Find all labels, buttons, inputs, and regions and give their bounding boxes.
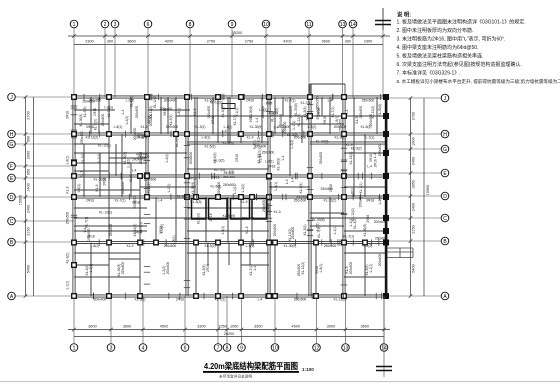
svg-text:4. 图中梁支座未注明筋均为6Фd@50.: 4. 图中梁支座未注明筋均为6Фd@50. — [397, 44, 479, 51]
svg-text:KL-9: KL-9 — [141, 125, 148, 129]
svg-text:L-1(1): L-1(1) — [292, 121, 296, 130]
svg-text:2: 2 — [104, 22, 107, 28]
svg-text:F: F — [10, 164, 13, 170]
svg-text:KL-3(2): KL-3(2) — [335, 136, 346, 140]
svg-text:2000: 2000 — [27, 151, 31, 159]
svg-text:KL-3(2): KL-3(2) — [81, 153, 85, 164]
svg-text:8: 8 — [226, 345, 229, 351]
svg-text:H: H — [443, 132, 447, 138]
svg-text:4500: 4500 — [292, 325, 300, 329]
svg-text:15900: 15900 — [426, 185, 430, 196]
svg-text:KL-30(9): KL-30(9) — [284, 244, 297, 248]
svg-text:L-4: L-4 — [222, 129, 227, 133]
svg-text:3600: 3600 — [322, 40, 330, 44]
svg-text:250x600: 250x600 — [262, 199, 266, 212]
svg-text:C: C — [443, 216, 447, 222]
rebar stub marks — [71, 94, 382, 299]
svg-text:200x500: 200x500 — [207, 106, 211, 119]
svg-text:200x500: 200x500 — [121, 182, 125, 195]
svg-text:KL-9: KL-9 — [241, 200, 248, 204]
svg-text:L-1(1): L-1(1) — [66, 281, 70, 290]
svg-text:2Ф16: 2Ф16 — [249, 114, 253, 122]
svg-text:KL-5(3): KL-5(3) — [169, 115, 173, 126]
svg-text:250x500: 250x500 — [338, 119, 342, 132]
svg-text:200x500: 200x500 — [273, 224, 277, 237]
svg-text:13: 13 — [343, 345, 349, 351]
svg-text:2Ф16: 2Ф16 — [212, 175, 220, 179]
svg-text:2Ф16: 2Ф16 — [211, 116, 215, 124]
svg-text:L-4: L-4 — [258, 298, 263, 302]
svg-text:KL-3(2): KL-3(2) — [303, 225, 307, 236]
svg-text:D: D — [10, 195, 14, 201]
svg-text:2700: 2700 — [27, 111, 31, 119]
svg-text:L-4: L-4 — [328, 99, 333, 103]
svg-text:2300: 2300 — [85, 40, 93, 44]
notes block 说明 — [397, 11, 560, 85]
svg-text:L-4: L-4 — [121, 109, 125, 114]
svg-text:250x500: 250x500 — [319, 152, 323, 165]
svg-text:4.20m梁底结构梁配筋平面图: 4.20m梁底结构梁配筋平面图 — [204, 361, 298, 371]
svg-text:L-2(2): L-2(2) — [259, 108, 268, 112]
svg-text:KL-9: KL-9 — [95, 184, 99, 191]
svg-text:1400: 1400 — [27, 183, 31, 191]
svg-text:200x500: 200x500 — [296, 196, 309, 200]
svg-text:KL-9: KL-9 — [193, 108, 197, 115]
svg-text:2. 图中未注明板厚均为双向分布筋.: 2. 图中未注明板厚均为双向分布筋. — [397, 27, 474, 34]
svg-text:7: 7 — [217, 345, 220, 351]
svg-text:D: D — [443, 194, 447, 200]
svg-text:KL-30(9): KL-30(9) — [378, 104, 382, 117]
svg-text:200x400: 200x400 — [374, 220, 387, 224]
svg-text:250x500: 250x500 — [223, 183, 236, 187]
svg-text:300: 300 — [345, 40, 351, 44]
svg-text:2750: 2750 — [245, 40, 253, 44]
svg-text:3600: 3600 — [123, 325, 131, 329]
svg-text:G: G — [10, 142, 14, 148]
svg-text:KL-3(2): KL-3(2) — [214, 159, 225, 163]
svg-text:8. 水工模板详见小梁楼布水平台走升, 提前得抗震等级为三级: 8. 水工模板详见小梁楼布水平台走升, 提前得抗震等级为三级;剪力墙抗震等级为二… — [397, 78, 560, 85]
paper edge artifact — [0, 381, 560, 383]
svg-text:KL-30(9): KL-30(9) — [312, 218, 325, 222]
svg-text:250x500: 250x500 — [109, 224, 113, 237]
svg-text:KL-30(9): KL-30(9) — [177, 195, 190, 199]
svg-text:L-4: L-4 — [345, 109, 349, 114]
svg-text:L-1(1): L-1(1) — [369, 264, 373, 273]
svg-text:15900: 15900 — [19, 195, 23, 206]
svg-text:2Ф16: 2Ф16 — [209, 213, 213, 221]
svg-text:200x400: 200x400 — [137, 155, 150, 159]
svg-text:1. 板及墙做法见平面图未注明构造详《03G101-1》的规: 1. 板及墙做法见平面图未注明构造详《03G101-1》的规定. — [397, 19, 526, 26]
svg-text:200x400: 200x400 — [289, 106, 293, 119]
svg-text:200x400: 200x400 — [164, 99, 177, 103]
beam labels — [66, 95, 388, 301]
svg-text:2Ф16: 2Ф16 — [102, 177, 106, 185]
svg-text:10: 10 — [263, 22, 269, 28]
svg-text:250x600: 250x600 — [144, 178, 157, 182]
svg-text:KL-12(2): KL-12(2) — [301, 262, 305, 275]
floor plan beams horizontal — [74, 84, 386, 297]
svg-text:L-1(1): L-1(1) — [167, 184, 171, 193]
svg-text:250x600: 250x600 — [101, 114, 105, 127]
svg-text:C: C — [10, 219, 14, 225]
svg-text:L-4: L-4 — [158, 199, 163, 203]
room label cluster — [223, 171, 235, 179]
svg-text:KL-5(3): KL-5(3) — [299, 183, 303, 194]
svg-text:200x400: 200x400 — [80, 131, 84, 144]
svg-text:KL-5(3): KL-5(3) — [83, 107, 87, 118]
svg-text:3600: 3600 — [127, 40, 135, 44]
svg-text:KL-7(1): KL-7(1) — [85, 217, 89, 228]
svg-text:KL-9: KL-9 — [274, 210, 281, 214]
svg-text:KL-12(2): KL-12(2) — [334, 298, 347, 302]
svg-text:L-8(1): L-8(1) — [274, 182, 278, 191]
svg-text:L-8(1): L-8(1) — [77, 184, 81, 193]
svg-text:4200: 4200 — [165, 40, 173, 44]
svg-text:13: 13 — [340, 22, 346, 28]
svg-text:KL-30(9): KL-30(9) — [294, 103, 298, 116]
svg-text:2Ф16: 2Ф16 — [374, 159, 378, 167]
svg-text:2Ф16: 2Ф16 — [206, 264, 210, 272]
left axis grid bubbles and dimensions — [8, 93, 74, 300]
svg-text:KL-7(1): KL-7(1) — [317, 227, 321, 238]
svg-text:1050: 1050 — [218, 325, 226, 329]
svg-text:3Ф18: 3Ф18 — [132, 201, 140, 205]
svg-text:KL-5(3): KL-5(3) — [210, 185, 221, 189]
svg-text:3300: 3300 — [197, 325, 205, 329]
roof protrusion box — [310, 84, 345, 97]
svg-text:L-2(2): L-2(2) — [269, 111, 278, 115]
svg-text:4500: 4500 — [160, 325, 168, 329]
svg-text:L-4: L-4 — [373, 153, 377, 158]
svg-text:说 明:: 说 明: — [397, 11, 411, 19]
svg-text:L-4: L-4 — [290, 177, 294, 182]
svg-text:6: 6 — [184, 345, 187, 351]
svg-text:KL-5(3): KL-5(3) — [135, 298, 146, 302]
svg-text:200x400: 200x400 — [137, 133, 150, 137]
svg-text:KL-12(2): KL-12(2) — [324, 199, 337, 203]
svg-text:KL-3(2): KL-3(2) — [221, 107, 225, 118]
svg-text:L-1(1): L-1(1) — [252, 140, 256, 149]
svg-text:9: 9 — [231, 22, 234, 28]
svg-text:1050: 1050 — [230, 325, 238, 329]
svg-text:6: 6 — [147, 22, 150, 28]
svg-text:KL-12(2): KL-12(2) — [98, 144, 111, 148]
svg-text:3600: 3600 — [88, 325, 96, 329]
svg-text:8: 8 — [189, 22, 192, 28]
svg-text:2400: 2400 — [412, 157, 416, 165]
break line top — [375, 8, 391, 30]
svg-text:KL-3(2): KL-3(2) — [195, 125, 206, 129]
svg-text:2750: 2750 — [207, 40, 215, 44]
svg-text:KL-12(2): KL-12(2) — [349, 152, 353, 165]
svg-text:L-2(2): L-2(2) — [160, 224, 164, 233]
svg-text:250x600: 250x600 — [121, 262, 125, 275]
svg-text:L-4: L-4 — [253, 265, 257, 270]
svg-text:KL-9: KL-9 — [259, 155, 263, 162]
svg-text:KL-3(2): KL-3(2) — [66, 253, 70, 264]
svg-text:2Ф16: 2Ф16 — [93, 108, 97, 116]
svg-text:250x500: 250x500 — [316, 96, 320, 109]
svg-text:L-4: L-4 — [285, 179, 289, 184]
svg-text:KL-7(1): KL-7(1) — [359, 183, 363, 194]
svg-text:200x400: 200x400 — [166, 262, 170, 275]
svg-text:2300: 2300 — [364, 40, 372, 44]
svg-text:KL-7(1): KL-7(1) — [115, 199, 126, 203]
svg-text:L-4: L-4 — [281, 155, 285, 160]
svg-text:3: 3 — [110, 345, 113, 351]
svg-text:L-1(1): L-1(1) — [235, 108, 239, 117]
svg-text:250x600: 250x600 — [291, 227, 295, 240]
svg-text:3300: 3300 — [254, 325, 262, 329]
svg-text:KL-3(2): KL-3(2) — [205, 244, 216, 248]
svg-text:2Ф16: 2Ф16 — [246, 99, 254, 103]
svg-text:250x600: 250x600 — [324, 244, 337, 248]
svg-text:3600: 3600 — [361, 325, 369, 329]
stair core boxes — [192, 199, 267, 220]
svg-text:250x500: 250x500 — [135, 106, 139, 119]
svg-text:2150: 2150 — [27, 227, 31, 235]
svg-text:6. 次梁支座注明方法弯起(参见图)按规范构造报监理确认.: 6. 次梁支座注明方法弯起(参见图)按规范构造报监理确认. — [397, 61, 522, 68]
svg-text:未尽事宜详见总说明: 未尽事宜详见总说明 — [219, 374, 252, 379]
svg-text:200x500: 200x500 — [87, 228, 91, 241]
svg-text:5400: 5400 — [27, 265, 31, 273]
svg-text:11: 11 — [306, 22, 311, 28]
svg-text:KL-3(2): KL-3(2) — [129, 96, 133, 107]
svg-text:KL-30(9): KL-30(9) — [191, 182, 195, 195]
svg-text:KL-12(2): KL-12(2) — [210, 101, 223, 105]
svg-text:35200: 35200 — [232, 31, 243, 35]
svg-text:250x600: 250x600 — [262, 151, 275, 155]
svg-text:KL-30(9): KL-30(9) — [276, 158, 280, 171]
svg-text:250x500: 250x500 — [82, 100, 95, 104]
svg-text:2Ф16: 2Ф16 — [235, 154, 239, 162]
right balcony slab — [387, 248, 413, 258]
svg-text:KL-9: KL-9 — [245, 226, 249, 233]
svg-text:2150: 2150 — [412, 225, 416, 233]
svg-text:3Ф18: 3Ф18 — [323, 116, 327, 124]
svg-text:250x500: 250x500 — [266, 203, 270, 216]
svg-text:14: 14 — [350, 22, 356, 28]
svg-text:KL-9: KL-9 — [247, 136, 254, 140]
svg-text:2Ф16: 2Ф16 — [86, 199, 94, 203]
svg-text:4: 4 — [142, 345, 145, 351]
svg-text:9: 9 — [240, 345, 243, 351]
bottom axis grid bubbles and dimensions — [68, 296, 390, 351]
svg-text:3Ф18: 3Ф18 — [267, 165, 275, 169]
svg-text:L-2(2): L-2(2) — [165, 154, 169, 163]
svg-text:L-8(1): L-8(1) — [66, 156, 70, 165]
svg-text:3Ф18: 3Ф18 — [366, 199, 374, 203]
svg-text:2400: 2400 — [27, 205, 31, 213]
svg-text:250x500: 250x500 — [359, 106, 363, 119]
svg-text:4200: 4200 — [283, 40, 291, 44]
svg-text:L-8(1): L-8(1) — [114, 125, 123, 129]
svg-text:1600: 1600 — [412, 137, 416, 145]
svg-text:L-8(1): L-8(1) — [221, 226, 225, 235]
columns — [72, 94, 389, 299]
small hatch box — [222, 104, 235, 109]
svg-text:L-1(1): L-1(1) — [256, 137, 260, 146]
svg-text:12: 12 — [314, 345, 320, 351]
svg-text:L-1(1): L-1(1) — [246, 244, 255, 248]
svg-text:KL-3(2): KL-3(2) — [287, 133, 298, 137]
svg-text:1850: 1850 — [412, 180, 416, 188]
svg-text:200x400: 200x400 — [94, 298, 107, 302]
svg-text:900: 900 — [27, 136, 31, 142]
svg-text:L-4: L-4 — [255, 117, 259, 122]
svg-text:KL-30(9): KL-30(9) — [316, 140, 329, 144]
svg-text:200x400: 200x400 — [378, 254, 382, 267]
svg-text:L-8(1): L-8(1) — [172, 236, 176, 245]
svg-text:L-4: L-4 — [132, 169, 137, 173]
svg-text:KL-3(2): KL-3(2) — [353, 218, 357, 229]
svg-text:L-8(1): L-8(1) — [104, 105, 113, 109]
svg-text:26200: 26200 — [224, 332, 235, 336]
svg-text:G: G — [443, 147, 447, 153]
svg-text:950: 950 — [27, 169, 31, 175]
svg-text:L-8(1): L-8(1) — [202, 136, 211, 140]
svg-text:H: H — [10, 132, 14, 138]
svg-text:10: 10 — [272, 345, 278, 351]
svg-text:L-8(1): L-8(1) — [91, 244, 100, 248]
svg-text:KL-9: KL-9 — [66, 186, 70, 193]
drawing title — [203, 361, 314, 379]
svg-text:L-8(1): L-8(1) — [319, 264, 323, 273]
svg-text:KL-9: KL-9 — [80, 170, 84, 177]
svg-text:3Ф18: 3Ф18 — [66, 111, 70, 119]
svg-text:KL-7(1): KL-7(1) — [285, 99, 296, 103]
svg-text:L-2(2): L-2(2) — [290, 140, 294, 149]
svg-text:L-1(1): L-1(1) — [333, 226, 337, 235]
svg-text:250x500: 250x500 — [321, 187, 334, 191]
svg-text:KL-5(3): KL-5(3) — [175, 136, 179, 147]
svg-text:KL-12(2): KL-12(2) — [99, 210, 112, 214]
svg-text:KL-5(3): KL-5(3) — [205, 145, 216, 149]
svg-text:KL-7(1): KL-7(1) — [301, 101, 312, 105]
svg-text:L-4: L-4 — [274, 126, 279, 130]
svg-text:3Ф18: 3Ф18 — [305, 112, 309, 120]
svg-text:L-2(2): L-2(2) — [308, 125, 317, 129]
svg-text:L-1(1): L-1(1) — [89, 264, 93, 273]
svg-text:5400: 5400 — [412, 264, 416, 272]
svg-text:L-2(2): L-2(2) — [364, 244, 373, 248]
svg-text:5. 板及墙做法见梁柱梁筋构造相关串连.: 5. 板及墙做法见梁柱梁筋构造相关串连. — [397, 52, 484, 59]
svg-text:1: 1 — [73, 345, 76, 351]
svg-text:L-1(1): L-1(1) — [97, 154, 101, 163]
svg-text:200x400: 200x400 — [189, 152, 193, 165]
svg-text:L-1(1): L-1(1) — [366, 136, 375, 140]
floor plan beams vertical — [73, 84, 388, 296]
svg-text:3000: 3000 — [327, 325, 335, 329]
svg-text:L-2(2): L-2(2) — [126, 159, 130, 168]
svg-text:250x600: 250x600 — [378, 144, 382, 157]
svg-text:250x500: 250x500 — [294, 298, 307, 302]
svg-text:2Ф16: 2Ф16 — [176, 298, 184, 302]
svg-text:200x500: 200x500 — [166, 125, 179, 129]
svg-text:200x500: 200x500 — [349, 262, 353, 275]
svg-text:2700: 2700 — [412, 112, 416, 120]
svg-text:KL-5(3): KL-5(3) — [191, 200, 202, 204]
svg-text:L-2(2): L-2(2) — [241, 184, 245, 193]
svg-text:200x500: 200x500 — [66, 212, 70, 225]
svg-text:KL-5(3): KL-5(3) — [361, 125, 372, 129]
svg-text:L-8(1): L-8(1) — [350, 188, 354, 197]
svg-text:KL-5(3): KL-5(3) — [93, 119, 97, 130]
svg-text:7. 本标准详见《03G329-1》.: 7. 本标准详见《03G329-1》. — [397, 69, 461, 76]
svg-text:KL-30(9): KL-30(9) — [363, 224, 367, 237]
svg-text:200x400: 200x400 — [160, 107, 173, 111]
top axis grid bubbles and dimensions — [68, 20, 390, 97]
svg-text:3Ф18: 3Ф18 — [147, 116, 151, 124]
svg-text:KL-7(1): KL-7(1) — [215, 298, 226, 302]
svg-text:KL-3(2): KL-3(2) — [147, 183, 151, 194]
svg-text:L-8(1): L-8(1) — [177, 108, 181, 117]
svg-text:2Ф16: 2Ф16 — [366, 214, 370, 222]
break line bottom — [376, 296, 392, 377]
svg-text:KL-9: KL-9 — [129, 175, 133, 182]
svg-text:2Ф16: 2Ф16 — [189, 177, 197, 181]
svg-text:KL-7(1): KL-7(1) — [343, 234, 354, 238]
svg-text:200x400: 200x400 — [359, 195, 363, 208]
svg-text:L-2(2): L-2(2) — [378, 196, 382, 205]
svg-text:L-2(2): L-2(2) — [125, 116, 129, 125]
svg-text:KL-30(9): KL-30(9) — [250, 125, 263, 129]
svg-text:3. 未注明板筋为2Ф16, 图中用"ᒐ"表示, 弯折为60: 3. 未注明板筋为2Ф16, 图中用"ᒐ"表示, 弯折为60°. — [397, 36, 506, 43]
svg-text:1:100: 1:100 — [302, 367, 314, 372]
svg-text:250x600: 250x600 — [375, 236, 388, 240]
svg-text:KL-3(2): KL-3(2) — [351, 146, 362, 150]
svg-text:KL-9: KL-9 — [346, 143, 353, 147]
svg-text:200x500: 200x500 — [283, 121, 287, 134]
svg-text:2400: 2400 — [412, 203, 416, 211]
svg-text:KL-5(3): KL-5(3) — [223, 141, 234, 145]
svg-text:KL-7(1): KL-7(1) — [331, 107, 335, 118]
svg-text:L-4: L-4 — [367, 165, 372, 169]
svg-text:KL-12(2): KL-12(2) — [371, 106, 375, 119]
svg-text:1: 1 — [73, 22, 76, 28]
svg-text:300: 300 — [107, 40, 113, 44]
svg-text:KL-5(3): KL-5(3) — [197, 213, 201, 224]
svg-text:KL-9: KL-9 — [127, 244, 134, 248]
svg-text:250x600: 250x600 — [223, 175, 235, 179]
svg-text:KL-12(2): KL-12(2) — [86, 136, 99, 140]
svg-text:L-8(1): L-8(1) — [133, 230, 142, 234]
right axis grid bubbles and dimensions — [386, 94, 449, 300]
svg-text:250x600: 250x600 — [242, 216, 255, 220]
svg-text:L-8(1): L-8(1) — [265, 160, 274, 164]
svg-text:KL-30(9): KL-30(9) — [223, 214, 236, 218]
svg-text:3: 3 — [114, 22, 117, 28]
svg-text:200x400: 200x400 — [269, 182, 273, 195]
svg-text:250x500: 250x500 — [362, 99, 375, 103]
svg-text:KL-12(2): KL-12(2) — [153, 95, 157, 108]
